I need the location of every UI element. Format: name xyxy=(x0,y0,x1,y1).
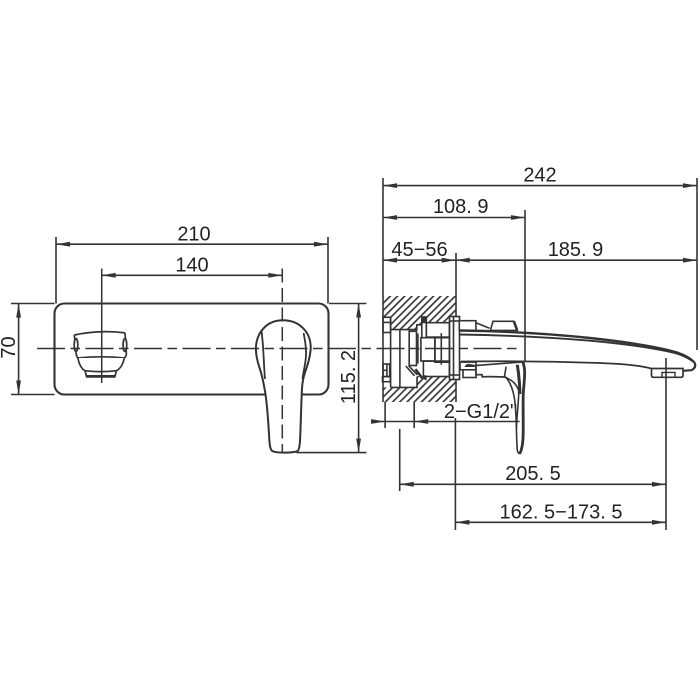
arrows dimension 70 xyxy=(16,304,21,318)
dimension 2-G1/2 xyxy=(371,421,520,423)
svg-text:2−G1/2": 2−G1/2" xyxy=(444,401,517,423)
svg-text:115. 2: 115. 2 xyxy=(338,350,360,404)
lever hub xyxy=(476,367,482,375)
chamfer xyxy=(406,366,415,376)
dimension 210 xyxy=(56,243,328,245)
escutcheon flange xyxy=(450,317,460,380)
body left edge xyxy=(390,317,392,387)
white cutouts xyxy=(383,317,460,388)
flange disc xyxy=(409,331,416,365)
dimension 140 xyxy=(102,274,283,276)
dimension 205.5 xyxy=(400,483,666,485)
lever blade xyxy=(474,362,525,453)
upper inlet fitting xyxy=(383,317,391,332)
arrows dimension 115.2 xyxy=(356,304,361,318)
spout mounting bumps (side) xyxy=(459,321,517,331)
svg-text:185. 9: 185. 9 xyxy=(548,239,604,261)
dimension 242 xyxy=(383,185,697,187)
dimension 70 xyxy=(18,304,20,395)
arrows dimension 2-G1/2 xyxy=(371,419,385,424)
svg-text:162. 5−173. 5: 162. 5−173. 5 xyxy=(500,502,623,524)
right box xyxy=(435,338,450,363)
dimension 115.2 xyxy=(358,304,360,453)
retaining ring line xyxy=(440,333,442,365)
arrows dimension 205.5 xyxy=(400,482,414,487)
spout centerline vertical xyxy=(101,269,103,384)
bottom box xyxy=(423,361,449,376)
handle centerline vertical dashed xyxy=(281,269,283,454)
dimension 45-56 and 185.9 xyxy=(383,259,697,261)
arrows dimension 45-56 xyxy=(383,258,397,263)
lever front edge crease xyxy=(482,377,519,429)
svg-text:205. 5: 205. 5 xyxy=(505,463,561,485)
arrows dimension 162.5-173.5 xyxy=(455,520,469,525)
svg-text:108. 9: 108. 9 xyxy=(433,196,489,218)
valve body internals xyxy=(383,317,460,388)
svg-text:70: 70 xyxy=(0,336,20,358)
spout side view xyxy=(460,331,696,378)
svg-text:242: 242 xyxy=(523,164,556,186)
wall hatch band xyxy=(383,296,460,402)
body top hatch boundary xyxy=(391,325,421,330)
wall left edge + 242 extension xyxy=(382,178,384,402)
lower inlet fitting xyxy=(383,364,390,377)
cartridge top box xyxy=(426,323,449,337)
svg-text:140: 140 xyxy=(175,254,208,276)
body bottom edge xyxy=(391,377,417,388)
dimension 108.9 xyxy=(383,217,525,219)
spout front view xyxy=(74,332,127,377)
arrows dimension 140 xyxy=(102,273,116,278)
arrows dimension 210 xyxy=(56,242,70,247)
lower connection + lever xyxy=(460,362,525,453)
svg-text:210: 210 xyxy=(177,223,210,245)
body divider xyxy=(399,330,401,388)
lever inner edge dark xyxy=(517,365,520,394)
svg-text:45−56: 45−56 xyxy=(391,239,447,261)
main horizontal centerline xyxy=(37,348,517,350)
arrows dimension 108.9 xyxy=(383,215,397,220)
mounting plate xyxy=(55,304,329,395)
dimension texts xyxy=(0,164,622,523)
aerator xyxy=(652,369,684,378)
lever back edge thick xyxy=(519,362,524,453)
arrows dimension 242 xyxy=(383,183,397,188)
center box xyxy=(421,338,435,361)
arrowheads xyxy=(16,183,697,525)
stem cap xyxy=(422,317,427,323)
handle front view xyxy=(256,320,311,452)
arrows dimension 185.9 xyxy=(456,258,470,263)
lever blade seam xyxy=(504,367,506,377)
dimension 162.5-173.5 xyxy=(455,521,666,523)
wall right face + 45-56 extension xyxy=(455,253,457,317)
